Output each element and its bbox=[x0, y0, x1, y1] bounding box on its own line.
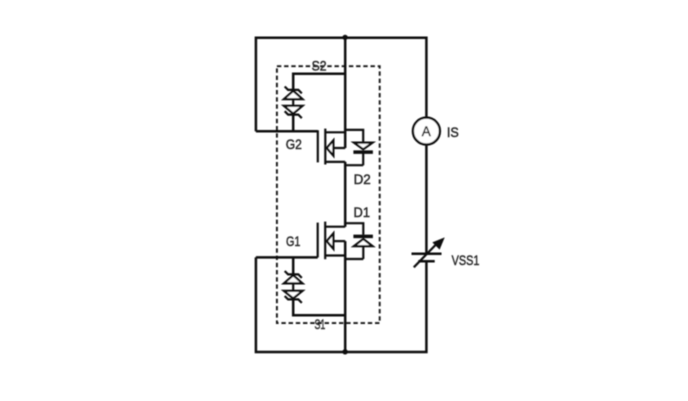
svg-text:D1: D1 bbox=[354, 204, 371, 220]
svg-text:IS: IS bbox=[447, 124, 459, 140]
svg-text:S1: S1 bbox=[315, 316, 326, 332]
svg-text:VSS1: VSS1 bbox=[452, 252, 480, 268]
svg-text:D2: D2 bbox=[354, 171, 371, 187]
svg-text:S2: S2 bbox=[312, 58, 327, 74]
svg-text:A: A bbox=[422, 124, 431, 139]
svg-text:G1: G1 bbox=[286, 233, 301, 249]
svg-text:G2: G2 bbox=[286, 136, 302, 152]
